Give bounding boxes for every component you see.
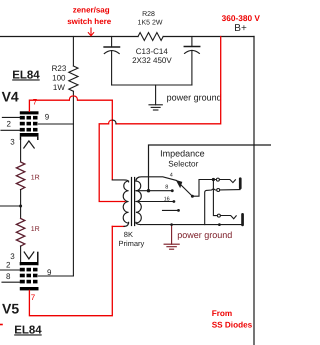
resistor 1R V5 cathode bbox=[16, 219, 24, 247]
svg-text:From: From bbox=[212, 309, 232, 318]
svg-text:9: 9 bbox=[47, 268, 52, 277]
svg-text:7: 7 bbox=[33, 98, 38, 107]
switch wiper arm bbox=[180, 184, 193, 197]
ground power ground top bbox=[149, 85, 162, 110]
svg-text:Impedance: Impedance bbox=[160, 149, 205, 159]
wire V5 pin9 to screen feed bbox=[39, 275, 74, 277]
svg-text:switch here: switch here bbox=[67, 17, 112, 26]
wire wiper to jack tips bbox=[192, 180, 216, 197]
svg-text:2: 2 bbox=[6, 260, 11, 269]
wire NFB line bbox=[149, 145, 272, 191]
wire V4 plate red bbox=[29, 96, 112, 180]
svg-text:B+: B+ bbox=[234, 23, 247, 34]
svg-text:R23: R23 bbox=[52, 64, 67, 73]
svg-text:V5: V5 bbox=[2, 300, 19, 316]
transformer OT core bbox=[131, 178, 133, 226]
svg-text:1R: 1R bbox=[31, 226, 40, 233]
tube V4 cathode caret bbox=[24, 141, 34, 148]
jack top tip contact bbox=[216, 178, 219, 181]
resistor 1R V4 cathode bbox=[16, 162, 24, 190]
wire capacitor bottom bus bbox=[112, 84, 192, 86]
svg-text:7: 7 bbox=[31, 293, 36, 302]
wire B+ to OT centre tap red bbox=[99, 37, 221, 202]
svg-text:8: 8 bbox=[165, 185, 168, 191]
wire V5 pin 8 bbox=[2, 281, 20, 283]
svg-text:3: 3 bbox=[10, 138, 15, 147]
svg-text:360-380 V: 360-380 V bbox=[222, 13, 261, 23]
svg-text:power ground: power ground bbox=[177, 230, 232, 240]
wire cathode node bbox=[20, 190, 22, 219]
wire V4 pin9 to screen feed bbox=[39, 123, 74, 125]
tube V5 socket bbox=[20, 252, 39, 291]
svg-text:R28: R28 bbox=[142, 11, 155, 18]
svg-text:zener/sag: zener/sag bbox=[73, 5, 110, 14]
svg-text:8K: 8K bbox=[124, 230, 133, 239]
wire B+ bus right segment bbox=[163, 36, 254, 38]
svg-text:EL84: EL84 bbox=[14, 324, 42, 336]
transformer OT secondary bbox=[136, 177, 176, 225]
switch spare contact bbox=[163, 209, 179, 211]
wire screen feed vertical R23 to pin9 junctions bbox=[72, 91, 74, 276]
wire B+ bus left segment bbox=[0, 36, 138, 38]
svg-text:EL84: EL84 bbox=[12, 69, 40, 81]
svg-text:V4: V4 bbox=[2, 88, 19, 104]
transformer OT primary bbox=[112, 180, 128, 227]
wire V4 pin upper left bbox=[2, 116, 19, 118]
svg-text:100: 100 bbox=[52, 74, 66, 83]
red stub left edge bbox=[0, 324, 2, 326]
svg-text:1R: 1R bbox=[31, 175, 40, 182]
jack bottom tip contact bbox=[217, 214, 220, 217]
svg-text:power ground: power ground bbox=[167, 93, 222, 103]
wire V4 pin 2 bbox=[1, 129, 20, 131]
capacitor C13 bbox=[104, 37, 119, 86]
wire V5 cathode lead bbox=[20, 246, 22, 262]
wire speaker common bus bbox=[141, 224, 243, 226]
resistor R23 with top lead bbox=[69, 37, 78, 92]
tube V4 socket bbox=[20, 111, 39, 140]
svg-text:1W: 1W bbox=[53, 83, 65, 92]
svg-text:8: 8 bbox=[6, 272, 11, 281]
svg-text:4: 4 bbox=[170, 172, 173, 178]
svg-text:C13-C14: C13-C14 bbox=[136, 47, 169, 56]
svg-text:Selector: Selector bbox=[168, 160, 198, 169]
svg-text:SS Diodes: SS Diodes bbox=[212, 320, 253, 329]
jack top body bbox=[239, 177, 242, 189]
wire V4 cathode to 1R bbox=[20, 140, 22, 162]
svg-text:16: 16 bbox=[164, 196, 170, 202]
switch contact 8 wire bbox=[136, 190, 172, 192]
jack bottom body bbox=[241, 213, 244, 226]
svg-text:1K5 2W: 1K5 2W bbox=[138, 19, 163, 26]
svg-text:9: 9 bbox=[45, 113, 50, 122]
wire V5 pin 2 bbox=[0, 269, 20, 271]
ground power ground bottom bbox=[164, 225, 179, 250]
switch contact 16 wire bbox=[136, 201, 174, 203]
svg-text:2: 2 bbox=[7, 119, 12, 128]
svg-text:Primary: Primary bbox=[118, 239, 144, 248]
svg-text:3: 3 bbox=[10, 252, 15, 261]
arrow zener/sag pointer bbox=[88, 28, 93, 36]
wire B+ right edge vertical from SS diodes bbox=[253, 37, 255, 345]
capacitor C14 bbox=[184, 37, 199, 86]
svg-text:2X32 450V: 2X32 450V bbox=[132, 56, 172, 65]
resistor R28 bbox=[138, 33, 163, 41]
jack top sleeve contact bbox=[217, 189, 220, 192]
tube V5 cathode caret bbox=[24, 252, 34, 259]
wire V5 plate red bbox=[29, 226, 124, 315]
